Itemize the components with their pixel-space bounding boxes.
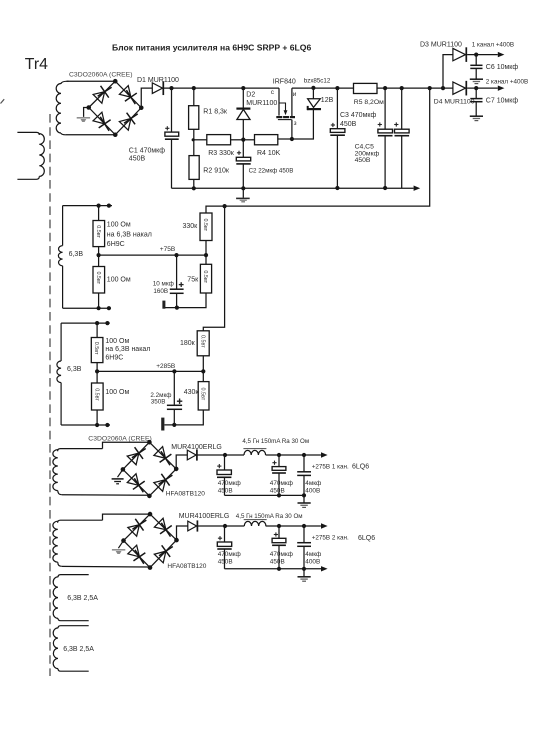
resistor 100 Ohm B2 <box>92 383 104 410</box>
wire C7 to ground <box>475 102 477 116</box>
output arrow 1 kanal +400V <box>498 52 505 57</box>
winding W1 6.3V <box>58 206 62 309</box>
resistor R2 910k <box>189 156 199 180</box>
node 10mkf cap <box>174 253 178 257</box>
terminal 1a <box>97 204 101 208</box>
label C3DO2060A (CREE) <box>69 72 132 79</box>
output arrow 2 kanal +400V <box>498 85 505 90</box>
+285V line <box>97 370 203 372</box>
wire cap470-2b bot <box>278 545 280 568</box>
svg-text:450В: 450В <box>340 121 357 128</box>
wire divider2 feed <box>203 206 224 331</box>
svg-text:4,5 Гн 150mA Ra 30 Ом: 4,5 Гн 150mA Ra 30 Ом <box>242 438 309 445</box>
label 4mkf-2 <box>305 551 321 565</box>
svg-text:bzx85c12: bzx85c12 <box>304 77 331 84</box>
label 1 kanal +400V <box>472 42 514 49</box>
wire cap470-1b bot <box>278 473 280 495</box>
label C3 <box>340 112 376 128</box>
label bzx85c12 <box>304 77 331 84</box>
svg-text:Блок питания усилителя на 6Н9С: Блок питания усилителя на 6Н9С SRPP + 6L… <box>112 42 311 52</box>
label 160V <box>153 288 168 295</box>
svg-text:330к: 330к <box>183 223 199 230</box>
label HFA08TB120 1 <box>166 491 205 498</box>
wire gate down <box>291 120 293 139</box>
wire R5 to D4 <box>377 87 453 89</box>
label W5 <box>67 595 98 602</box>
svg-text:75к: 75к <box>187 277 199 284</box>
wire cap470-1a bot <box>224 477 226 495</box>
wire BR2+ up to diode <box>176 455 187 469</box>
winding W4 <box>53 520 103 566</box>
label HFA08TB120 2 <box>167 563 206 570</box>
svg-text:430к: 430к <box>184 389 200 396</box>
svg-text:з: з <box>294 120 297 127</box>
label C2 <box>249 168 294 175</box>
resistor 100 Ohm B1 <box>91 338 103 363</box>
wire W4 bottom to bridge <box>62 565 150 568</box>
diode D2 MUR1100 <box>236 109 250 120</box>
svg-text:450В: 450В <box>218 558 233 565</box>
capacitor C6 10mkf <box>470 65 482 68</box>
0V line block1 <box>225 494 305 496</box>
node 0V-1b <box>277 493 281 497</box>
wire R2 to 0V rail <box>193 179 195 188</box>
diode D6 MUR4100ERLG <box>188 520 198 531</box>
node divider2 <box>201 369 205 373</box>
svg-text:R3 330к: R3 330к <box>208 150 235 157</box>
svg-text:0.5вт: 0.5вт <box>95 271 101 284</box>
node C2/0V <box>241 186 245 190</box>
label +275V 1 kan <box>312 463 370 470</box>
wire D3 to output 1 <box>467 54 498 56</box>
wire cap470-2a bot <box>224 549 226 569</box>
wire to C7 <box>475 88 477 98</box>
wire source to rail <box>291 88 293 116</box>
diode D4 MUR1100 <box>453 81 466 96</box>
wire 430k bottom <box>165 410 204 425</box>
winding W6 6.3V 2.5A <box>53 626 89 672</box>
wire cap 10mkf <box>176 255 178 289</box>
label R4 <box>257 150 281 157</box>
resistor R4 10K <box>255 135 278 145</box>
wire rail to zener <box>312 88 314 98</box>
wire cap4-1 <box>303 455 305 472</box>
transistor U1 IRF840 <box>276 103 295 120</box>
node cap 4-2 <box>302 524 306 528</box>
svg-text:0.5вт: 0.5вт <box>202 218 208 231</box>
svg-text:4мкф: 4мкф <box>305 480 321 487</box>
transformer HV secondary winding <box>56 81 68 135</box>
capacitor 4mkf-2 <box>297 543 311 547</box>
winding W3 <box>53 449 103 495</box>
capacitor 470mkf-2b <box>272 532 286 545</box>
wire BR1+ to D1 <box>141 88 152 108</box>
svg-text:и: и <box>293 91 297 98</box>
svg-text:450В: 450В <box>218 488 233 495</box>
node +400 branch D3 <box>441 86 445 90</box>
wire C2 to 0V rail <box>242 164 244 188</box>
wire source rail to R5 <box>292 87 354 89</box>
wire node A to R3 <box>194 139 207 141</box>
wire D4 to output 2 <box>467 87 498 89</box>
node +400 branch down <box>428 86 432 90</box>
wire BR3+ up to diode <box>177 526 188 540</box>
svg-text:6,3В 2,5А: 6,3В 2,5А <box>63 646 94 653</box>
resistor 100 Ohm A2 <box>93 267 105 294</box>
wire 180k to divider node <box>202 356 204 382</box>
label na 6.3V nakal <box>107 231 152 238</box>
wire choke to out <box>266 454 321 456</box>
capacitor 2.2mkf 350V <box>167 399 182 410</box>
0V rail <box>172 187 414 189</box>
ground filter1 <box>298 495 311 507</box>
diode D1 MUR1100 <box>152 81 163 95</box>
capacitor C5 200mkf <box>394 122 409 135</box>
label D3 MUR1100 <box>420 42 462 49</box>
pin label i (source) <box>293 91 297 98</box>
label 2 kanal +400V <box>486 78 528 85</box>
wire cap470-2b <box>278 526 280 538</box>
svg-text:100 Ом: 100 Ом <box>107 222 131 229</box>
node C3/rail <box>335 86 339 90</box>
chassis bar block1 <box>162 301 165 309</box>
winding W5 6.3V 2.5A <box>53 575 89 621</box>
label 470-2a <box>218 551 241 565</box>
wire 330k to divider node <box>205 241 207 265</box>
wire +400 down right side <box>225 88 430 206</box>
wire node B to C2 <box>242 140 244 158</box>
svg-text:MUR4100ERLG: MUR4100ERLG <box>171 444 222 451</box>
wire cap470-2a <box>224 526 226 542</box>
svg-text:6Н9С: 6Н9С <box>107 241 125 248</box>
svg-text:6,3В: 6,3В <box>69 251 84 258</box>
svg-text:С6 10мкф: С6 10мкф <box>486 64 519 71</box>
label 100 Om A2 <box>107 276 131 283</box>
node cap 470-2b <box>277 524 281 528</box>
svg-text:10 мкф: 10 мкф <box>153 281 174 288</box>
label +75V <box>160 246 175 253</box>
wire C1 to 0V rail <box>171 139 173 188</box>
label 6N9S 2 <box>105 355 123 362</box>
node 0V-1c <box>302 493 306 497</box>
svg-text:R2 910к: R2 910к <box>203 167 230 174</box>
stray mark at left edge <box>1 99 5 103</box>
wire W1 top line <box>63 205 112 207</box>
label W2 6.3V <box>67 366 82 373</box>
choke L1 4.5H <box>243 449 266 455</box>
wire R_A2 top <box>98 255 100 266</box>
resistor 75k <box>200 264 211 293</box>
node C7 <box>474 86 478 90</box>
svg-text:0.5вт: 0.5вт <box>199 335 205 348</box>
svg-text:0.5вт: 0.5вт <box>93 388 99 401</box>
ground C7 <box>470 116 483 120</box>
svg-text:IRF840: IRF840 <box>273 78 296 85</box>
wire diode to choke 2 <box>197 525 244 527</box>
resistor 330k <box>200 213 212 241</box>
wire cap4-1 bot <box>303 475 305 495</box>
svg-text:0.5вт: 0.5вт <box>200 388 206 401</box>
terminal 2a <box>95 321 99 325</box>
svg-text:D2: D2 <box>246 92 255 99</box>
svg-text:R4 10K: R4 10K <box>257 150 281 157</box>
label na 6.3V nakal 2 <box>105 346 150 353</box>
wire zener to gate node <box>292 109 314 139</box>
0V line block2 <box>225 568 322 570</box>
resistor 100 Ohm A1 <box>93 221 105 247</box>
label +285V <box>156 363 175 370</box>
node 0V-2c <box>302 567 306 571</box>
node D2/rail <box>241 86 245 90</box>
wire R_B1 bottom <box>96 363 98 372</box>
wire rail to R1 <box>193 88 195 106</box>
bridge rectifier BR2 <box>121 440 179 498</box>
svg-text:C7 10мкф: C7 10мкф <box>486 97 519 104</box>
svg-text:180к: 180к <box>180 340 196 347</box>
node A (R1/R2/R3) <box>192 138 195 141</box>
svg-text:C3DO2060A (CREE): C3DO2060A (CREE) <box>69 72 132 79</box>
svg-text:0.5вт: 0.5вт <box>93 342 99 355</box>
label D1 MUR1100 <box>137 77 179 84</box>
label R2 <box>203 167 230 174</box>
label R5 <box>354 99 384 106</box>
transformer Tr4 label <box>25 56 48 73</box>
svg-text:12В: 12В <box>321 97 334 104</box>
wire W1 bottom line <box>63 307 111 309</box>
svg-text:450В: 450В <box>129 156 146 163</box>
transformer core (dashed) <box>49 114 51 676</box>
wire C6 to ground <box>475 68 477 78</box>
wire W3 bottom to bridge <box>62 494 150 497</box>
wire R_B1 top <box>96 323 98 337</box>
label 470-2b <box>270 551 293 565</box>
svg-text:на 6,3В накал: на 6,3В накал <box>107 231 152 238</box>
capacitor 10mkf 160V <box>170 282 184 293</box>
svg-text:4,5 Гн 150mA Ra 30 Ом: 4,5 Гн 150mA Ra 30 Ом <box>236 513 303 520</box>
label R3 <box>208 150 235 157</box>
wire node B to R4 <box>243 139 254 141</box>
svg-text:6LQ6: 6LQ6 <box>352 464 369 471</box>
svg-text:160В: 160В <box>153 288 168 295</box>
terminal 2c <box>95 423 99 427</box>
svg-text:100 Ом: 100 Ом <box>105 338 129 345</box>
label choke 2 <box>236 513 303 520</box>
svg-text:450В: 450В <box>270 488 285 495</box>
svg-text:6,3В: 6,3В <box>67 366 82 373</box>
0V arrow block2 <box>321 566 328 571</box>
wire C5 to 0V rail <box>401 136 403 188</box>
wire rail to D2 <box>242 88 244 108</box>
svg-text:R1 8,3к: R1 8,3к <box>203 109 228 116</box>
svg-text:Tr4: Tr4 <box>25 56 48 73</box>
svg-text:470мкф: 470мкф <box>218 551 241 558</box>
label 6N9S <box>107 241 125 248</box>
svg-text:HFA08TB120: HFA08TB120 <box>167 563 206 570</box>
node +75 tap <box>97 253 101 257</box>
svg-text:400В: 400В <box>305 558 320 565</box>
label 430k <box>184 389 200 396</box>
+75V line <box>99 254 206 256</box>
wire rail to drain <box>278 88 280 115</box>
transformer primary winding <box>17 132 44 179</box>
zener VD1 bzx85c12 12V <box>307 99 321 110</box>
wire cap2 to bottom <box>173 409 175 425</box>
svg-text:D1 MUR1100: D1 MUR1100 <box>137 77 179 84</box>
wire rail to C1 <box>171 88 173 132</box>
node C5/rail <box>400 86 404 90</box>
pin label z (gate) <box>294 120 297 127</box>
resistor 430k <box>198 382 209 410</box>
wire W2 top line <box>61 322 110 324</box>
wire diode to choke <box>197 454 244 456</box>
ground filter2 <box>298 569 311 581</box>
wire HV-top to bridge BR1 top <box>67 80 116 82</box>
node R1/rail <box>192 86 196 90</box>
svg-text:450В: 450В <box>355 157 371 164</box>
wire rail to C3 <box>336 88 338 129</box>
label D4 MUR1100 <box>434 99 475 106</box>
wire to C6 <box>475 55 477 65</box>
label C6 <box>486 64 519 71</box>
node divider1 <box>204 253 208 257</box>
label 4mkf-1 <box>305 480 321 495</box>
capacitor C4 200mkf <box>378 122 393 135</box>
wire choke to out 2 <box>266 525 321 527</box>
svg-text:C3 470мкф: C3 470мкф <box>340 112 376 119</box>
ground BR2 <box>112 469 124 483</box>
svg-text:HFA08TB120: HFA08TB120 <box>166 491 205 498</box>
terminal 1b <box>107 204 111 208</box>
label choke 1 <box>242 438 309 445</box>
label 12V <box>321 97 334 104</box>
svg-text:0.5вт: 0.5вт <box>95 225 101 238</box>
terminal 2d <box>105 423 109 427</box>
svg-text:470мкф: 470мкф <box>270 480 293 487</box>
terminal 2b <box>105 321 109 325</box>
terminal 1d <box>107 306 111 310</box>
svg-text:+275В 1 кан.: +275В 1 кан. <box>312 463 349 470</box>
title <box>112 42 311 52</box>
bridge rectifier BR3 <box>121 512 179 570</box>
node C4/rail <box>383 86 387 90</box>
wire rail to C5 <box>401 88 403 129</box>
wire 75k bottom <box>165 293 206 308</box>
svg-text:C1 470мкф: C1 470мкф <box>129 148 165 155</box>
ground at BR1 AC midpoint <box>77 108 90 123</box>
label 75k <box>187 277 199 284</box>
chassis bar block2 <box>161 418 164 431</box>
wire R_A1 bottom <box>98 247 100 256</box>
pin label c (drain) <box>271 89 275 96</box>
wire cap4-2 <box>303 526 305 543</box>
resistor R5 8.2Ohm <box>354 83 378 93</box>
node C3/0V <box>335 186 339 190</box>
wire HV-bottom to bridge BR1 bottom <box>66 134 115 136</box>
capacitor 470mkf-1b <box>272 461 286 473</box>
node C4/0V <box>383 186 387 190</box>
svg-text:4мкф: 4мкф <box>305 551 321 558</box>
node cap2 bottom <box>172 423 176 427</box>
svg-text:MUR1100: MUR1100 <box>246 100 277 107</box>
label 100 Om B1 <box>105 338 129 345</box>
terminal 1c <box>97 306 101 310</box>
resistor R3 330k <box>207 135 231 145</box>
node cap 470-2a <box>223 524 227 528</box>
node C1/rail <box>169 86 173 90</box>
label 100 Om B2 <box>105 389 129 396</box>
wire R_A2 bottom <box>98 293 100 308</box>
label 100 Om A1 <box>107 222 131 229</box>
wire C4 to 0V rail <box>384 136 386 188</box>
svg-text:400В: 400В <box>305 488 320 495</box>
diode D3 MUR1100 <box>453 47 466 62</box>
svg-text:450В: 450В <box>270 558 285 565</box>
label C1 <box>129 148 165 163</box>
label 470-1a <box>218 480 241 495</box>
choke L2 4.5H <box>244 520 267 526</box>
capacitor 4mkf-1 <box>297 472 311 476</box>
svg-text:100 Ом: 100 Ом <box>107 276 131 283</box>
node +285 tap <box>95 369 99 373</box>
diode D5 MUR4100ERLG <box>187 449 197 460</box>
label 350V <box>151 399 166 406</box>
label 10mkf <box>153 281 174 288</box>
wire node A to R2 <box>193 140 195 156</box>
capacitor 470mkf-1a <box>217 464 231 477</box>
ground main <box>236 188 250 202</box>
svg-text:D3 MUR1100: D3 MUR1100 <box>420 42 462 49</box>
wire cap470-1a <box>224 455 226 470</box>
svg-text:100 Ом: 100 Ом <box>105 389 129 396</box>
output arrow +275V 1 <box>321 452 328 457</box>
node cap1 bottom <box>175 306 179 310</box>
capacitor C7 10mkf <box>470 99 482 102</box>
wire rail up to D3 <box>443 55 453 89</box>
svg-text:на 6,3В накал: на 6,3В накал <box>105 346 150 353</box>
svg-text:2 канал +400В: 2 канал +400В <box>486 78 528 85</box>
svg-text:+285В: +285В <box>156 363 175 370</box>
wire R_A1 top <box>98 206 100 221</box>
svg-text:C3DO2060A (CREE): C3DO2060A (CREE) <box>88 435 151 442</box>
svg-text:6LQ6: 6LQ6 <box>358 535 375 542</box>
label 470-1b <box>270 480 293 495</box>
resistor 180k <box>197 331 209 356</box>
wire R1 to node A <box>193 129 195 140</box>
label IRF840 <box>273 78 296 85</box>
svg-text:350В: 350В <box>151 399 166 406</box>
node R2/0V <box>192 186 196 190</box>
wire W4 top step <box>103 514 151 520</box>
0V rail arrow <box>414 186 421 191</box>
capacitor C3 470mkf 450V <box>330 123 345 135</box>
svg-text:MUR4100ERLG: MUR4100ERLG <box>179 513 230 520</box>
node 2.2mkf cap <box>172 369 176 373</box>
node cap 4-1 <box>302 453 306 457</box>
wire R4 to gate node <box>278 138 292 140</box>
node gate/zener/R4 <box>290 137 294 141</box>
svg-text:6,3В 2,5А: 6,3В 2,5А <box>67 595 98 602</box>
node zener/rail <box>311 86 315 90</box>
wire R_B2 bottom <box>96 410 98 425</box>
svg-text:470мкф: 470мкф <box>270 551 293 558</box>
wire C3 to 0V rail <box>336 135 338 188</box>
svg-text:0.5вт: 0.5вт <box>202 270 208 283</box>
svg-text:D4 MUR1100: D4 MUR1100 <box>434 99 475 106</box>
wire cap4-2 bot <box>303 546 305 569</box>
wire cap to bottom <box>176 294 178 308</box>
label W6 <box>63 646 94 653</box>
winding W2 6.3V <box>57 323 61 425</box>
